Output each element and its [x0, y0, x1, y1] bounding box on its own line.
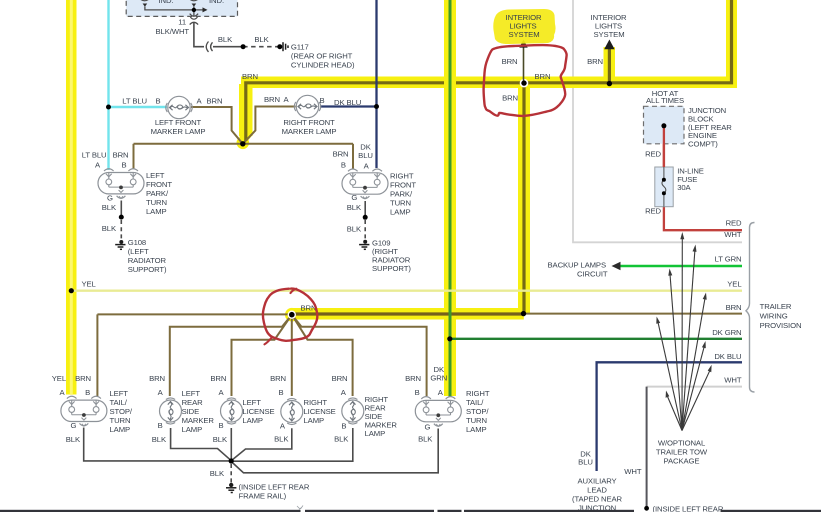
- svg-text:BLK: BLK: [102, 203, 117, 212]
- svg-text:LAMP: LAMP: [146, 207, 167, 216]
- svg-text:LEFT: LEFT: [242, 398, 261, 407]
- svg-text:(LEFT: (LEFT: [128, 247, 149, 256]
- svg-text:TURN: TURN: [146, 198, 167, 207]
- svg-text:(INSIDE LEFT REAR: (INSIDE LEFT REAR: [653, 505, 724, 512]
- svg-text:B: B: [218, 421, 223, 430]
- svg-text:BLU: BLU: [358, 151, 373, 160]
- svg-text:W/OPTIONAL: W/OPTIONAL: [658, 438, 706, 447]
- svg-text:G: G: [351, 193, 357, 202]
- svg-text:BLK: BLK: [274, 434, 289, 443]
- svg-text:30A: 30A: [677, 183, 691, 192]
- svg-text:SIDE: SIDE: [182, 407, 200, 416]
- svg-text:RED: RED: [645, 150, 661, 159]
- svg-text:IND.: IND.: [209, 0, 224, 5]
- svg-text:BLK: BLK: [152, 435, 167, 444]
- svg-text:LT GRN: LT GRN: [715, 254, 742, 263]
- svg-text:LT BLU: LT BLU: [82, 150, 107, 159]
- svg-text:BRN: BRN: [726, 303, 742, 312]
- svg-text:IND.: IND.: [159, 0, 174, 5]
- svg-text:AUXILIARY: AUXILIARY: [577, 477, 616, 486]
- svg-text:B: B: [341, 422, 346, 431]
- svg-text:BRN: BRN: [333, 150, 349, 159]
- svg-text:BLK: BLK: [66, 435, 81, 444]
- svg-text:RED: RED: [645, 206, 661, 215]
- svg-text:LEFT: LEFT: [110, 389, 129, 398]
- svg-text:PARK/: PARK/: [390, 190, 413, 199]
- svg-text:(REAR OF RIGHT: (REAR OF RIGHT: [291, 51, 353, 60]
- svg-text:LT BLU: LT BLU: [122, 96, 147, 105]
- svg-text:MARKER LAMP: MARKER LAMP: [151, 127, 206, 136]
- svg-text:LICENSE: LICENSE: [242, 407, 274, 416]
- svg-text:CYLINDER HEAD): CYLINDER HEAD): [291, 61, 355, 70]
- svg-text:FRONT: FRONT: [390, 181, 416, 190]
- svg-text:BLK/WHT: BLK/WHT: [156, 27, 190, 36]
- svg-text:LAMP: LAMP: [182, 425, 203, 434]
- svg-text:LAMP: LAMP: [304, 416, 325, 425]
- svg-text:BRN: BRN: [502, 94, 518, 103]
- svg-text:CIRCUIT: CIRCUIT: [577, 269, 608, 278]
- svg-text:LICENSE: LICENSE: [304, 407, 336, 416]
- svg-text:B: B: [155, 96, 160, 105]
- svg-text:LEAD: LEAD: [587, 486, 607, 495]
- svg-text:LAMP: LAMP: [365, 429, 386, 438]
- svg-text:BRN: BRN: [75, 374, 91, 383]
- svg-text:BRN: BRN: [242, 72, 258, 81]
- svg-text:B: B: [341, 161, 346, 170]
- svg-text:WHT: WHT: [724, 375, 742, 384]
- svg-text:STOP/: STOP/: [110, 407, 133, 416]
- svg-text:RIGHT: RIGHT: [390, 172, 414, 181]
- svg-text:YEL: YEL: [52, 374, 67, 383]
- svg-text:RED: RED: [726, 218, 742, 227]
- svg-text:BACKUP LAMPS: BACKUP LAMPS: [548, 261, 606, 270]
- svg-text:RIGHT: RIGHT: [304, 398, 328, 407]
- svg-text:LEFT: LEFT: [182, 389, 201, 398]
- svg-text:LEFT: LEFT: [146, 171, 165, 180]
- svg-text:ALL TIMES: ALL TIMES: [646, 96, 684, 105]
- svg-text:SYSTEM: SYSTEM: [593, 30, 624, 39]
- svg-text:BRN: BRN: [270, 374, 286, 383]
- svg-text:BRN: BRN: [502, 57, 518, 66]
- svg-text:TRAILER: TRAILER: [760, 302, 792, 311]
- svg-text:BLK: BLK: [213, 435, 228, 444]
- svg-text:(TAPED NEAR: (TAPED NEAR: [572, 495, 623, 504]
- svg-text:B: B: [415, 388, 420, 397]
- svg-text:G: G: [107, 193, 113, 202]
- svg-text:G108: G108: [128, 238, 146, 247]
- svg-text:RIGHT: RIGHT: [466, 389, 490, 398]
- svg-text:TAIL/: TAIL/: [110, 398, 128, 407]
- svg-text:MARKER LAMP: MARKER LAMP: [282, 127, 337, 136]
- svg-text:BLK: BLK: [254, 35, 269, 44]
- svg-text:BLK: BLK: [347, 225, 362, 234]
- svg-text:MARKER: MARKER: [182, 416, 215, 425]
- svg-text:TURN: TURN: [110, 416, 131, 425]
- svg-text:BLK: BLK: [418, 434, 433, 443]
- svg-text:GRN: GRN: [430, 373, 447, 382]
- svg-text:B: B: [121, 161, 126, 170]
- svg-text:BLU: BLU: [578, 457, 593, 466]
- svg-text:DK GRN: DK GRN: [712, 328, 741, 337]
- svg-text:REAR: REAR: [182, 398, 204, 407]
- svg-text:BRN: BRN: [207, 96, 223, 105]
- svg-text:SUPPORT): SUPPORT): [372, 264, 411, 273]
- svg-text:FRAME RAIL): FRAME RAIL): [239, 491, 287, 500]
- svg-text:TURN: TURN: [390, 199, 411, 208]
- svg-text:YEL: YEL: [82, 279, 97, 288]
- svg-text:BRN: BRN: [535, 72, 551, 81]
- svg-text:SYSTEM: SYSTEM: [508, 30, 539, 39]
- svg-text:RADIATOR: RADIATOR: [128, 256, 167, 265]
- svg-text:BRN: BRN: [210, 374, 226, 383]
- svg-text:B: B: [158, 421, 163, 430]
- svg-text:DK BLU: DK BLU: [334, 98, 361, 107]
- svg-text:SUPPORT): SUPPORT): [128, 265, 167, 274]
- svg-text:WHT: WHT: [724, 230, 742, 239]
- svg-text:B: B: [85, 388, 90, 397]
- svg-text:BLK: BLK: [218, 35, 233, 44]
- svg-text:B: B: [319, 96, 324, 105]
- svg-text:BLK: BLK: [347, 203, 362, 212]
- svg-text:BLK: BLK: [102, 224, 117, 233]
- svg-text:TAIL/: TAIL/: [466, 398, 484, 407]
- svg-text:WHT: WHT: [624, 467, 642, 476]
- svg-text:LAMP: LAMP: [242, 416, 263, 425]
- svg-text:BRN: BRN: [587, 57, 603, 66]
- svg-text:LAMP: LAMP: [110, 425, 131, 434]
- svg-text:(INSIDE LEFT REAR: (INSIDE LEFT REAR: [239, 482, 310, 491]
- svg-text:TRAILER TOW: TRAILER TOW: [656, 447, 708, 456]
- svg-text:PACKAGE: PACKAGE: [664, 456, 700, 465]
- svg-text:DK BLU: DK BLU: [714, 352, 741, 361]
- svg-text:PARK/: PARK/: [146, 189, 169, 198]
- svg-text:WIRING: WIRING: [760, 311, 788, 320]
- svg-text:BLK: BLK: [210, 469, 225, 478]
- svg-text:STOP/: STOP/: [466, 407, 489, 416]
- svg-text:BRN: BRN: [113, 150, 129, 159]
- svg-text:PROVISION: PROVISION: [760, 321, 802, 330]
- svg-text:LAMP: LAMP: [466, 425, 487, 434]
- svg-text:TURN: TURN: [466, 416, 487, 425]
- svg-text:B: B: [278, 388, 283, 397]
- svg-text:LAMP: LAMP: [390, 208, 411, 217]
- svg-text:YEL: YEL: [727, 279, 742, 288]
- svg-text:BRN: BRN: [405, 374, 421, 383]
- svg-text:BRN: BRN: [264, 95, 280, 104]
- svg-text:COMPT): COMPT): [688, 139, 718, 148]
- svg-text:BLK: BLK: [334, 434, 349, 443]
- svg-text:G117: G117: [291, 43, 309, 52]
- svg-text:11: 11: [178, 18, 186, 27]
- svg-text:BRN: BRN: [149, 374, 165, 383]
- svg-text:G: G: [425, 423, 431, 432]
- svg-text:FRONT: FRONT: [146, 180, 172, 189]
- svg-text:BRN: BRN: [332, 374, 348, 383]
- svg-text:G: G: [71, 421, 77, 430]
